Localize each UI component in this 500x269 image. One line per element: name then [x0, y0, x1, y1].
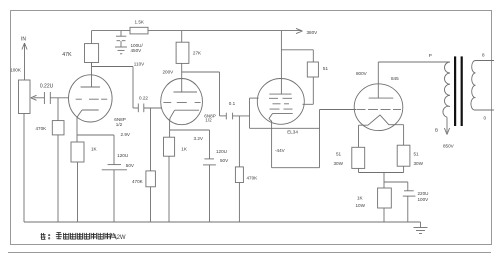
svg-text:30W: 30W: [414, 161, 424, 166]
svg-text:220U: 220U: [418, 191, 429, 196]
ground under filter cap: [115, 47, 127, 54]
svg-text:50V: 50V: [126, 163, 135, 168]
ground symbol: [414, 222, 428, 234]
tube V4 845: [354, 84, 403, 131]
OPT secondary coil: [471, 61, 476, 111]
svg-text:845: 845: [391, 76, 399, 81]
svg-text:470K: 470K: [36, 126, 48, 131]
resistor 1K cathode V1: [71, 142, 84, 222]
B+ rail left: [92, 30, 131, 32]
wire cathode V2 to bypass cap: [170, 129, 210, 131]
svg-text:27K: 27K: [193, 51, 202, 56]
svg-text:51: 51: [323, 66, 329, 71]
plate lead V3 to rail: [280, 31, 282, 95]
filament lead left: [358, 125, 360, 147]
svg-text:0: 0: [484, 116, 487, 121]
plate lead V4: [377, 62, 379, 98]
svg-text:P: P: [429, 53, 432, 58]
svg-text:850V: 850V: [443, 143, 455, 148]
svg-text:30W: 30W: [334, 161, 344, 166]
svg-text:3.2V: 3.2V: [194, 136, 204, 141]
grid loop V3: [250, 98, 259, 128]
B+ rail right: [148, 30, 301, 32]
svg-text:1/2: 1/2: [205, 118, 212, 123]
svg-text:470K: 470K: [132, 179, 144, 184]
wire plate V4 to OPT primary: [378, 61, 450, 63]
ground bus: [24, 221, 421, 223]
svg-text:8: 8: [482, 53, 485, 58]
svg-text:0.22: 0.22: [139, 95, 148, 100]
svg-text:200V: 200V: [163, 69, 175, 74]
svg-text:51: 51: [414, 152, 420, 157]
resistor 1.5K decoupling: [130, 27, 148, 34]
svg-text:120U: 120U: [216, 149, 227, 154]
OPT primary coil: [443, 62, 450, 117]
capacitor 100U/450V filter: [116, 31, 126, 47]
wire cathode junction to bypass cap: [77, 134, 114, 136]
svg-text:100K: 100K: [10, 68, 22, 73]
svg-text:1K: 1K: [91, 147, 98, 152]
svg-text:1/2: 1/2: [116, 122, 123, 127]
OPT B+ arrow down 850V: [444, 117, 449, 134]
capacitor 0.1 interstage: [220, 113, 250, 120]
resistor 51/30W right: [397, 145, 410, 172]
wire rail to 47K: [91, 31, 93, 44]
input terminal IN arrow: [22, 43, 27, 80]
svg-text:380V: 380V: [307, 30, 319, 35]
B+ 380V arrow: [296, 28, 303, 33]
resistor 470K grid leak V3: [235, 116, 243, 222]
resistor 470K grid leak V1: [52, 98, 64, 222]
svg-text:450V: 450V: [131, 48, 143, 53]
wire plate V2 junction to coupling: [182, 72, 220, 116]
capacitor 0.22U input coupling: [44, 92, 50, 104]
OPT core: [454, 56, 463, 126]
wire cathode V1 down: [76, 117, 78, 142]
resistor 47K plate load V1: [85, 44, 99, 67]
resistor 1K cathode V2: [164, 137, 175, 222]
svg-text:0.22U: 0.22U: [40, 83, 54, 89]
svg-text:IN: IN: [21, 37, 26, 43]
svg-text:120U: 120U: [117, 153, 128, 158]
svg-text:51: 51: [336, 152, 342, 157]
svg-text:2.9V: 2.9V: [121, 132, 131, 137]
svg-text:1K: 1K: [357, 195, 364, 200]
capacitor 120U/50V cathode bypass V1: [102, 135, 127, 222]
tube V1 6N8P 1/2: [69, 63, 113, 123]
svg-text:50V: 50V: [220, 158, 229, 163]
filament lead right: [403, 125, 405, 146]
wire pot bottom to ground bus: [23, 114, 25, 223]
svg-text:2W: 2W: [117, 235, 126, 241]
capacitor 220U/100V: [403, 182, 416, 222]
svg-text:110V: 110V: [134, 62, 145, 67]
resistor 27K plate load V2: [176, 31, 189, 92]
svg-text:1.5K: 1.5K: [135, 20, 145, 25]
svg-text:0.1: 0.1: [229, 101, 236, 106]
resistor 1K/10W: [378, 182, 392, 222]
svg-text:10W: 10W: [356, 203, 366, 208]
svg-text:47K: 47K: [62, 52, 72, 58]
svg-text:470K: 470K: [247, 176, 259, 181]
wire cap to grid of V1: [50, 97, 68, 99]
resistor 51/30W left: [352, 147, 365, 172]
resistor 51 screen V3: [281, 50, 318, 105]
cathode network V3: [250, 110, 320, 168]
potentiometer 100K: [19, 80, 45, 114]
svg-text:-44V: -44V: [275, 148, 286, 153]
tube V3 EL34: [257, 79, 304, 125]
svg-text:EL34: EL34: [287, 130, 298, 135]
resistor 470K grid leak V2: [146, 108, 156, 222]
filament bias junction wires: [359, 173, 408, 183]
wire plate V1 to coupling cap: [92, 67, 139, 109]
svg-text:B: B: [435, 127, 438, 132]
wire V3 to grid V4: [320, 109, 357, 111]
wire cathode V2 down: [169, 121, 171, 138]
capacitor 120U/50V cathode bypass V2: [203, 130, 216, 222]
svg-text:800V: 800V: [356, 71, 368, 76]
OPT secondary wires: [474, 61, 494, 111]
svg-text:1K: 1K: [181, 147, 188, 152]
note text chinese: 注：未标明电阻的功率为2W: [41, 232, 117, 239]
tube V2 6N8P 1/2: [161, 79, 203, 125]
capacitor 0.22 interstage: [138, 104, 161, 113]
svg-text:100V: 100V: [418, 197, 430, 202]
